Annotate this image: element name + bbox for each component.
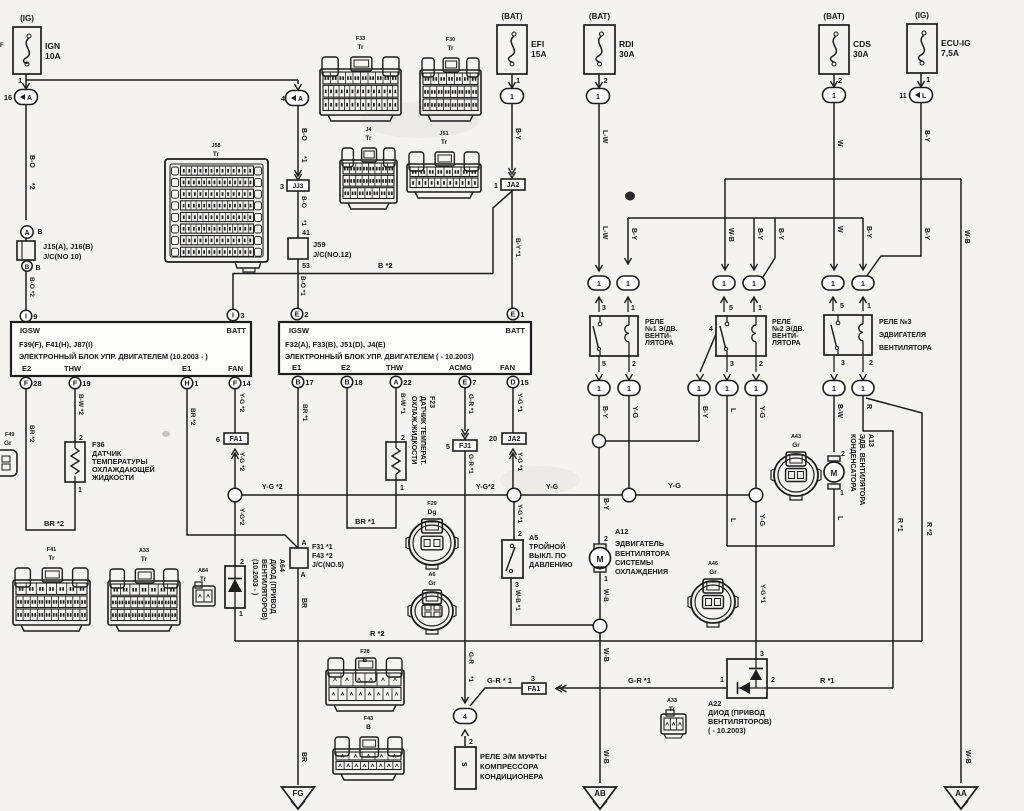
svg-text:Y-G *1: Y-G *1 <box>516 452 523 472</box>
pin F 19 <box>69 377 81 389</box>
wire B-O *2 to ECU pin I9 <box>25 271 27 310</box>
wire W-B bus horizontal <box>725 178 961 180</box>
svg-text:1: 1 <box>597 386 601 393</box>
svg-text:2: 2 <box>838 76 842 85</box>
svg-text:F: F <box>73 381 78 388</box>
svg-text:53: 53 <box>302 263 310 270</box>
wire W-B *1 switch A5 to node <box>511 578 593 625</box>
wire Y-G *2 FA1 to node <box>234 453 236 488</box>
svg-text:11: 11 <box>899 93 907 100</box>
svg-text:Y-G*2: Y-G*2 <box>238 508 245 526</box>
wire R *1 diode A22 pin2 to relay3 <box>767 687 893 689</box>
svg-text:B-W *2: B-W *2 <box>77 394 84 415</box>
svg-text:3: 3 <box>240 311 244 320</box>
oval below relay3 pin2 <box>862 356 864 372</box>
svg-text:2: 2 <box>759 361 763 368</box>
wire B-Y drop to relay1 pin1 <box>627 218 629 264</box>
svg-text:(IG): (IG) <box>20 14 34 23</box>
svg-text:A: A <box>24 230 29 237</box>
wire Y-G relay2 pin2 down to bus <box>755 396 757 488</box>
svg-text:L: L <box>729 408 736 413</box>
wire BR *2 sensor F36 to pin F28 loop <box>26 389 75 530</box>
svg-text:ВЕНТИЛЯТОРА: ВЕНТИЛЯТОРА <box>615 549 671 558</box>
wire R relay3 pin2 branch R*1 <box>863 396 893 688</box>
svg-text:BR *1: BR *1 <box>355 517 375 526</box>
svg-text:*2: *2 <box>28 183 35 190</box>
svg-text:IGSW: IGSW <box>20 326 41 335</box>
svg-text:F: F <box>24 381 29 388</box>
svg-text:1: 1 <box>604 576 608 583</box>
svg-text:E2: E2 <box>341 363 350 372</box>
svg-text:РЕЛЕ Э/М МУФТЫ: РЕЛЕ Э/М МУФТЫ <box>480 752 547 761</box>
svg-text:A: A <box>298 96 303 103</box>
svg-text:2: 2 <box>240 559 244 566</box>
wire B-Y EFI oval to JA2 <box>511 104 513 170</box>
svg-text:Dg: Dg <box>428 509 437 516</box>
svg-text:(BAT): (BAT) <box>589 12 611 21</box>
wire B-Y diagonal drop to relay2 pin1 <box>763 218 775 277</box>
svg-text:1: 1 <box>832 93 836 100</box>
pin B 17 <box>292 376 304 388</box>
svg-text:ЛЯТОРА: ЛЯТОРА <box>772 340 801 347</box>
svg-text:1: 1 <box>516 76 520 85</box>
svg-text:B-W: B-W <box>836 404 843 418</box>
svg-text:1: 1 <box>926 75 930 84</box>
svg-text:AB: AB <box>594 789 606 798</box>
ground FG <box>282 787 315 809</box>
svg-text:L: L <box>836 516 843 521</box>
oval below relay2 pin4 <box>700 334 716 372</box>
svg-text:( - 10.2003): ( - 10.2003) <box>708 726 746 735</box>
svg-text:B-Y *1: B-Y *1 <box>514 238 521 257</box>
svg-text:F43 *2: F43 *2 <box>312 553 333 560</box>
svg-text:R *1: R *1 <box>896 518 903 532</box>
wire R relay3 pin2 branch R*2 diagonal <box>866 398 922 641</box>
node B junction circle <box>22 261 32 271</box>
svg-text:E: E <box>295 312 300 319</box>
svg-text:ЭДВ. ВЕНТИЛЯТОРА: ЭДВ. ВЕНТИЛЯТОРА <box>858 434 865 505</box>
svg-text:A84: A84 <box>198 568 209 574</box>
svg-text:E2: E2 <box>22 364 31 373</box>
svg-text:FAN: FAN <box>500 363 515 372</box>
svg-text:5: 5 <box>840 303 844 310</box>
wire B-O *1 from oval 4A down <box>297 105 299 176</box>
svg-text:1: 1 <box>627 386 631 393</box>
svg-text:I: I <box>232 313 234 320</box>
svg-text:A6: A6 <box>428 572 435 578</box>
svg-text:9: 9 <box>33 312 37 321</box>
svg-text:H: H <box>184 381 189 388</box>
svg-text:2: 2 <box>79 435 83 442</box>
connector oval 1 RDI <box>587 89 610 104</box>
wire Y-G *1 node to diode A22 pin3 <box>755 502 757 659</box>
svg-text:4: 4 <box>463 714 467 721</box>
svg-text:ДИОД (ПРИВОД: ДИОД (ПРИВОД <box>269 559 276 614</box>
svg-text:Y-G: Y-G <box>758 406 765 419</box>
svg-text:B-Y: B-Y <box>756 228 763 240</box>
oval below relay3 pin3 <box>833 356 835 372</box>
wire L-W RDI to relay1 pin3 <box>598 104 600 271</box>
wire B-Y horizontal to relay2 pin4 <box>605 440 699 442</box>
svg-text:A12: A12 <box>615 527 628 536</box>
svg-text:B: B <box>295 380 300 387</box>
svg-text:2: 2 <box>869 360 873 367</box>
wire Y-G *1 pin D15 to JA2 <box>512 388 514 433</box>
svg-text:F: F <box>0 43 4 49</box>
svg-text:B-Y: B-Y <box>601 406 608 418</box>
svg-text:J/C(NO.5): J/C(NO.5) <box>312 562 344 569</box>
svg-text:ЭДВИГАТЕЛЬ: ЭДВИГАТЕЛЬ <box>615 539 664 548</box>
wire G-R *1 FJ1 down to compressor relay oval <box>464 451 466 703</box>
wire B-Y bus horizontal <box>628 217 863 219</box>
svg-text:28: 28 <box>33 379 41 388</box>
svg-text:№1 Э/ДВ.: №1 Э/ДВ. <box>645 325 678 333</box>
svg-text:*1: *1 <box>300 156 307 163</box>
diode A64 fan drive (10.2003-) <box>225 566 245 608</box>
svg-text:1: 1 <box>831 281 835 288</box>
wire B-Y relay1 pin5 to node <box>598 396 600 434</box>
svg-text:ЖИДКОСТИ: ЖИДКОСТИ <box>91 473 134 482</box>
svg-text:IGN: IGN <box>45 41 60 51</box>
svg-text:B: B <box>344 380 349 387</box>
svg-text:IGSW: IGSW <box>289 326 310 335</box>
wire B-Y node down to motor A12 <box>598 447 600 544</box>
junction JJ3 <box>295 174 302 180</box>
node Y-G junction left <box>228 488 242 502</box>
ground AA <box>945 787 978 809</box>
oval 4 compressor clutch <box>462 697 469 703</box>
svg-text:15: 15 <box>520 378 528 387</box>
pin H 1 <box>181 377 193 389</box>
node Y-G junction relay1 <box>622 488 636 502</box>
wire BR from J/C NO.5 to ground FG <box>297 568 299 785</box>
svg-text:B-Y: B-Y <box>602 498 609 510</box>
svg-text:G-R: G-R <box>467 652 474 664</box>
node junction circle B-Y <box>593 435 606 448</box>
junction J59 J/C(NO.12) <box>288 238 308 259</box>
wire R *2 horizontal <box>235 640 922 642</box>
svg-text:B: B <box>35 265 40 272</box>
wire top horizontal IGN to connector 4A <box>26 79 298 81</box>
svg-text:18: 18 <box>354 378 362 387</box>
svg-text:J/C(NO 10): J/C(NO 10) <box>43 252 82 261</box>
svg-text:Gr: Gr <box>709 569 717 576</box>
wire Y-G relay1 pin2 down to bus <box>628 396 630 488</box>
svg-text:1: 1 <box>861 386 865 393</box>
wire G-R *1 FA1 to diode A22 pin1 <box>556 687 727 689</box>
svg-text:E1: E1 <box>182 364 191 373</box>
svg-text:1: 1 <box>239 611 243 618</box>
wire pin2 compressor relay to oval <box>464 736 466 746</box>
wire B-W *2 pin F19 to sensor F36 <box>74 389 76 442</box>
wire B-Y ECU-IG to relay3 pin1 <box>866 103 921 277</box>
oval above relay2 pin1 <box>743 276 765 290</box>
svg-text:W: W <box>836 140 843 147</box>
wire RDI fuse to oval <box>598 74 600 88</box>
svg-text:F33: F33 <box>356 36 365 42</box>
svg-text:B: B <box>366 724 371 731</box>
svg-text:КОНДЕНСАТОРА: КОНДЕНСАТОРА <box>849 434 856 492</box>
wire diode A64 to R*2 <box>234 608 236 641</box>
svg-text:J59: J59 <box>313 240 326 249</box>
svg-text:ДАТЧИК ТЕМПЕРАТ.: ДАТЧИК ТЕМПЕРАТ. <box>419 396 426 465</box>
svg-text:B-O *1: B-O *1 <box>299 276 306 296</box>
svg-text:7: 7 <box>472 378 476 387</box>
pressure switch A5 <box>502 540 523 578</box>
svg-text:Y-G *1: Y-G *1 <box>516 504 523 524</box>
fuse CDS 30A <box>819 25 849 74</box>
svg-text:22: 22 <box>403 378 411 387</box>
svg-text:G-R *1: G-R *1 <box>467 454 474 474</box>
svg-text:1: 1 <box>626 281 630 288</box>
svg-text:2: 2 <box>604 536 608 543</box>
svg-text:6: 6 <box>216 435 220 444</box>
svg-text:M: M <box>596 554 603 564</box>
wire B-W relay3 pin3 to motor A13 <box>833 396 835 452</box>
svg-text:1: 1 <box>697 386 701 393</box>
svg-text:B-O *2: B-O *2 <box>28 277 35 297</box>
svg-text:W-B: W-B <box>727 228 734 242</box>
svg-text:J58: J58 <box>211 143 220 149</box>
svg-text:1: 1 <box>597 281 601 288</box>
svg-text:G-R * 1: G-R * 1 <box>487 676 512 685</box>
svg-text:1: 1 <box>722 281 726 288</box>
svg-text:F49: F49 <box>5 432 14 438</box>
svg-text:30A: 30A <box>853 49 869 59</box>
svg-text:A64: A64 <box>278 559 285 572</box>
svg-text:1: 1 <box>78 487 82 494</box>
svg-text:5: 5 <box>602 361 606 368</box>
svg-text:ВЕНТИ-: ВЕНТИ- <box>772 333 799 340</box>
svg-text:F: F <box>233 381 238 388</box>
pin A 22 <box>390 376 402 388</box>
svg-text:1: 1 <box>18 76 22 85</box>
node A junction circle <box>21 226 33 238</box>
wire W-B motor A12 down <box>599 572 601 619</box>
svg-text:F36: F36 <box>92 440 105 449</box>
svg-text:F23: F23 <box>428 396 435 408</box>
fuse EFI 15A <box>497 25 527 74</box>
svg-text:B *2: B *2 <box>378 261 393 270</box>
svg-text:4: 4 <box>709 326 713 333</box>
svg-text:3: 3 <box>515 582 519 589</box>
ECU block -10.2003 (electronic engine control unit) <box>279 322 531 374</box>
junction JA2 lower <box>502 433 526 444</box>
ECU block 10.2003- (electronic engine control unit) <box>11 322 251 376</box>
svg-text:L-W: L-W <box>601 226 608 240</box>
svg-text:15A: 15A <box>531 49 547 59</box>
wire L motor A13 down <box>833 489 835 546</box>
resistor F23 coolant temperature sensor (old) <box>386 442 406 480</box>
svg-text:Y-G: Y-G <box>668 481 681 490</box>
svg-text:J4: J4 <box>365 127 372 133</box>
wire L horizontal to motor A13 return <box>727 545 834 547</box>
svg-text:AA: AA <box>955 789 967 798</box>
svg-text:E: E <box>511 312 516 319</box>
svg-text:ОХЛАЖДЕНИЯ: ОХЛАЖДЕНИЯ <box>615 567 668 576</box>
wire B-Y drop to relay2 pin1 <box>753 218 755 270</box>
svg-text:F28: F28 <box>360 649 369 655</box>
node Y-G junction D15 <box>507 488 521 502</box>
wire Y-G bus horizontal <box>235 494 756 496</box>
svg-text:EFI: EFI <box>531 39 544 49</box>
svg-text:1: 1 <box>494 181 498 190</box>
wire W-B to ground AB <box>599 633 601 783</box>
svg-text:ЭДВИГАТЕЛЯ: ЭДВИГАТЕЛЯ <box>879 332 926 339</box>
svg-text:S: S <box>460 762 467 767</box>
svg-text:R *1: R *1 <box>820 676 835 685</box>
svg-text:R *2: R *2 <box>925 522 932 536</box>
svg-text:КОМПРЕССОРА: КОМПРЕССОРА <box>480 762 539 771</box>
svg-text:W: W <box>836 226 843 233</box>
svg-text:Y-G: Y-G <box>758 514 765 527</box>
svg-text:(BAT): (BAT) <box>501 12 523 21</box>
svg-text:2: 2 <box>518 531 522 538</box>
oval below relay1 pin2 <box>628 356 630 372</box>
svg-text:FG: FG <box>292 789 303 798</box>
svg-text:ВЫКЛ. ПО: ВЫКЛ. ПО <box>529 551 566 560</box>
svg-text:20: 20 <box>489 434 497 443</box>
pin I 9 first ECU IGSW <box>20 310 32 322</box>
connector oval 16 (A) IGN <box>15 90 38 105</box>
svg-text:*1: *1 <box>467 676 474 683</box>
svg-text:1: 1 <box>596 94 600 101</box>
svg-text:17: 17 <box>305 378 313 387</box>
svg-text:Gr: Gr <box>4 440 12 447</box>
svg-text:W-B: W-B <box>963 230 970 244</box>
wire W-B drop to relay2 pin5 <box>724 179 726 270</box>
svg-text:ТРОЙНОЙ: ТРОЙНОЙ <box>529 542 565 551</box>
svg-text:L-W: L-W <box>601 130 608 144</box>
svg-text:5: 5 <box>729 305 733 312</box>
svg-text:W-B: W-B <box>602 648 609 662</box>
node Y-G junction relay2 <box>749 488 763 502</box>
svg-text:BATT: BATT <box>506 326 526 335</box>
node W-B junction <box>593 619 607 633</box>
wire Y-G *1 node to switch A5 <box>513 502 515 540</box>
svg-text:B-O: B-O <box>300 128 307 141</box>
pin D 15 <box>507 376 519 388</box>
svg-text:1: 1 <box>832 386 836 393</box>
wire G-R *1 pin E7 to FJ1 <box>464 388 466 431</box>
svg-text:A5: A5 <box>529 533 538 542</box>
svg-text:B-Y: B-Y <box>701 406 708 418</box>
svg-text:2: 2 <box>604 76 608 85</box>
wire Y-G *2 pin F14 to FA1 <box>234 389 236 433</box>
svg-text:Tr: Tr <box>441 139 448 146</box>
svg-text:THW: THW <box>386 363 404 372</box>
svg-text:1: 1 <box>400 485 404 492</box>
pin E 1 second ECU BATT <box>507 308 519 320</box>
svg-text:3: 3 <box>841 360 845 367</box>
wire B-O *2 from oval 16 down to junction A <box>25 105 27 220</box>
svg-text:J51: J51 <box>439 131 448 137</box>
svg-text:Tr: Tr <box>357 44 364 51</box>
wire BR *2 pin H1 down <box>187 389 298 548</box>
wire CDS fuse to oval <box>833 74 835 87</box>
oval above relay3 pin5 <box>831 264 838 270</box>
svg-text:1: 1 <box>725 386 729 393</box>
svg-text:L: L <box>729 518 736 523</box>
connector oval 1 EFI <box>501 89 524 104</box>
svg-text:Y-G *2: Y-G *2 <box>238 452 245 472</box>
svg-text:ECU-IG: ECU-IG <box>941 38 971 48</box>
oval above relay1 pin1 <box>617 276 639 290</box>
svg-text:FAN: FAN <box>228 364 243 373</box>
svg-text:B-Y: B-Y <box>777 228 784 240</box>
svg-text:B-Y: B-Y <box>630 228 637 240</box>
svg-text:RDI: RDI <box>619 39 634 49</box>
svg-text:JA2: JA2 <box>507 182 520 189</box>
svg-text:2: 2 <box>401 435 405 442</box>
svg-text:ВЕНТИ-: ВЕНТИ- <box>645 333 672 340</box>
wire Y-G *1 JA2 to Y-G node <box>512 453 514 488</box>
fuse IGN 10A <box>13 27 41 74</box>
pin E 2 second ECU IGSW <box>291 308 303 320</box>
oval above relay1 pin3 <box>596 265 603 271</box>
svg-text:R *2: R *2 <box>370 629 385 638</box>
svg-text:Y-G *1: Y-G *1 <box>516 393 523 413</box>
svg-text:(10.2003 - ): (10.2003 - ) <box>251 559 258 595</box>
svg-text:FJ1: FJ1 <box>459 443 471 450</box>
svg-text:Tr: Tr <box>141 556 148 563</box>
svg-text:B-O: B-O <box>300 196 307 208</box>
svg-text:E1: E1 <box>292 363 301 372</box>
connector oval 4 (A) <box>286 91 309 106</box>
oval below relay2 pin2 <box>755 356 757 372</box>
svg-text:3: 3 <box>280 182 284 191</box>
junction FA1 left <box>224 433 248 444</box>
svg-text:14: 14 <box>242 379 251 388</box>
svg-text:2: 2 <box>632 361 636 368</box>
svg-text:BR: BR <box>300 598 307 608</box>
svg-text:10A: 10A <box>45 51 61 61</box>
oval below relay1 pin5 <box>598 356 600 372</box>
svg-text:1: 1 <box>861 281 865 288</box>
svg-text:РЕЛЕ: РЕЛЕ <box>645 319 664 326</box>
resistor F36 coolant temperature sensor <box>65 442 85 482</box>
svg-text:2: 2 <box>771 677 775 684</box>
svg-text:R: R <box>865 404 872 409</box>
svg-text:B-Y: B-Y <box>514 128 521 140</box>
svg-text:JJ3: JJ3 <box>293 183 304 190</box>
svg-text:Y-G *2: Y-G *2 <box>238 393 245 413</box>
wire BR *1 pin B17 to J/C NO.5 <box>297 388 299 548</box>
svg-text:3: 3 <box>730 361 734 368</box>
svg-text:СИСТЕМЫ: СИСТЕМЫ <box>615 558 653 567</box>
wire B-Y drop to relay3 pin1 <box>862 218 864 270</box>
svg-text:G-R *1: G-R *1 <box>467 394 474 414</box>
svg-text:A: A <box>301 540 306 547</box>
svg-text:M: M <box>831 469 838 478</box>
fuse ECU-IG 7.5A <box>907 24 937 73</box>
junction JA2 top <box>509 172 516 178</box>
svg-text:B-Y: B-Y <box>865 226 872 238</box>
svg-text:7,5A: 7,5A <box>941 48 959 58</box>
wire IGN fuse to connector 16 <box>25 74 27 89</box>
svg-text:G-R *1: G-R *1 <box>628 676 651 685</box>
svg-text:Y-G: Y-G <box>546 484 559 491</box>
svg-text:ЭЛЕКТРОННЫЙ БЛОК УПР. ДВИГАТЕЛ: ЭЛЕКТРОННЫЙ БЛОК УПР. ДВИГАТЕЛЕМ (10.200… <box>19 352 208 361</box>
svg-text:A46: A46 <box>708 561 718 567</box>
svg-text:3: 3 <box>760 651 764 658</box>
svg-text:B-Y: B-Y <box>923 228 930 240</box>
svg-text:W-B *1: W-B *1 <box>514 590 521 611</box>
svg-text:3: 3 <box>531 674 535 683</box>
svg-text:2: 2 <box>469 739 473 746</box>
pin I 3 first ECU BATT <box>227 309 239 321</box>
svg-text:F41: F41 <box>47 547 56 553</box>
